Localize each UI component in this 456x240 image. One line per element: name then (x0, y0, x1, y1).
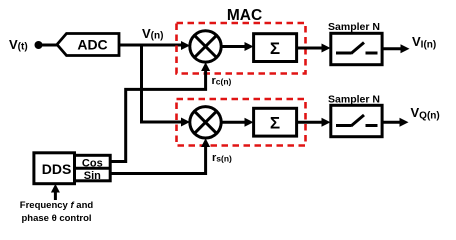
wire sampler 2 output (382, 118, 408, 127)
wire M1 to summer S1 (221, 42, 253, 51)
dashed box MAC 2 (177, 99, 306, 146)
wire Sin to multiplier M2 (rs) (110, 138, 210, 173)
svg-text:Frequency f and: Frequency f and (20, 200, 94, 211)
node V(t) input dot (35, 41, 43, 49)
wire S2 to sampler 2 (297, 118, 331, 127)
sampler 2 (331, 105, 382, 136)
sampler 1 (331, 33, 382, 64)
svg-text:rc(n): rc(n) (212, 75, 232, 87)
svg-text:phase θ control: phase θ control (21, 213, 91, 224)
svg-text:rs(n): rs(n) (212, 152, 232, 164)
wire V(n) branch down to multiplier M2 (142, 45, 191, 127)
svg-text:Sin: Sin (84, 170, 101, 182)
Sin cell (75, 168, 111, 182)
wire V(t) dot to ADC (39, 44, 59, 47)
svg-text:Sampler N: Sampler N (328, 21, 380, 33)
summer S2 (254, 108, 297, 136)
wire Cos to multiplier M1 (rc) (110, 62, 210, 161)
wire ADC to multiplier M1 (119, 41, 190, 50)
multiplier M1 (190, 31, 221, 62)
DDS block (34, 153, 75, 184)
wire sampler 1 output (382, 44, 409, 53)
multiplier M2 (190, 107, 221, 138)
wire S1 to sampler 1 (297, 44, 331, 53)
svg-text:Σ: Σ (270, 39, 280, 58)
svg-text:MAC: MAC (227, 7, 262, 24)
dashed box MAC 1 (177, 23, 306, 74)
svg-text:Sampler N: Sampler N (328, 94, 380, 106)
ADC block (57, 34, 119, 56)
svg-text:DDS: DDS (42, 161, 72, 177)
wire M2 to summer S2 (221, 118, 253, 127)
summer S1 (254, 34, 297, 62)
svg-text:Σ: Σ (270, 114, 280, 133)
svg-text:ADC: ADC (77, 37, 107, 53)
Cos cell (75, 155, 111, 181)
arrow frequency control into DDS (51, 184, 60, 200)
label Frequency f and phase theta control (20, 200, 94, 224)
